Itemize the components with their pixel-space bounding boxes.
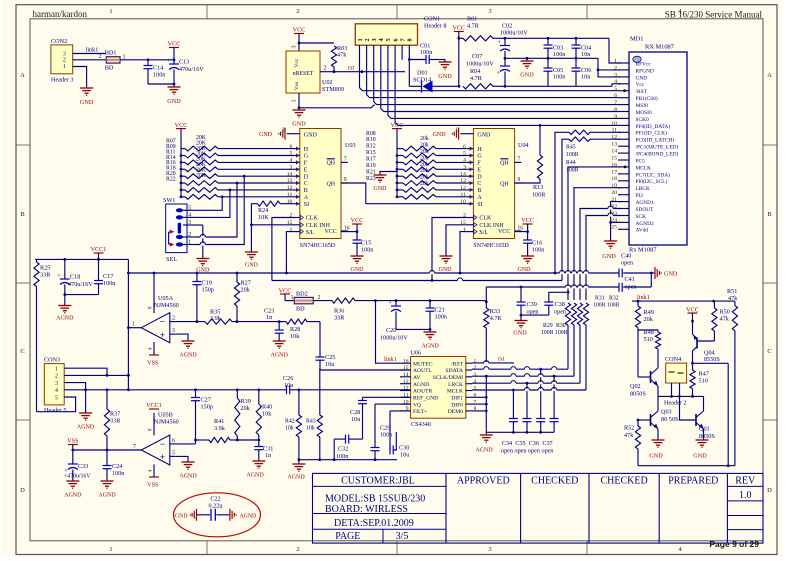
svg-text:B: B <box>767 211 772 218</box>
svg-text:B: B <box>477 188 481 194</box>
ferrite bead BD1 <box>105 50 126 72</box>
svg-text:AGND2: AGND2 <box>636 221 655 227</box>
svg-text:SN74HC165D: SN74HC165D <box>300 243 336 249</box>
svg-text:1000u/10V: 1000u/10V <box>380 335 408 342</box>
svg-text:R48: R48 <box>644 329 654 336</box>
svg-text:AGND: AGND <box>77 425 95 431</box>
svg-text:QH: QH <box>500 181 509 187</box>
svg-text:GND: GND <box>477 133 491 139</box>
svg-text:3: 3 <box>292 46 298 49</box>
svg-text:CLK: CLK <box>306 216 319 222</box>
svg-text:rst: rst <box>348 65 354 72</box>
svg-text:CON4: CON4 <box>665 356 681 363</box>
svg-text:Page 9 of 29: Page 9 of 29 <box>709 539 759 549</box>
svg-text:4: 4 <box>378 38 385 41</box>
svg-text:A: A <box>20 72 25 79</box>
svg-text:R15: R15 <box>366 150 376 156</box>
svg-text:R23: R23 <box>366 176 376 182</box>
svg-text:PAGE: PAGE <box>335 531 360 542</box>
svg-text:G: G <box>304 154 309 160</box>
svg-text:GND: GND <box>259 132 273 138</box>
svg-text:Rx M1087: Rx M1087 <box>629 247 657 254</box>
svg-text:47k: 47k <box>337 52 347 59</box>
svg-text:13: 13 <box>611 142 617 148</box>
wire CON1 bus to MD1 pins 5-10 <box>367 45 618 125</box>
svg-text:C35: C35 <box>515 440 525 447</box>
analog ground AGND (bottom row) <box>287 460 305 481</box>
wire AOUTR row right <box>298 388 411 391</box>
svg-text:AGND: AGND <box>240 513 257 519</box>
ground GND (rail) <box>520 58 534 78</box>
svg-text:R37: R37 <box>110 411 120 418</box>
wire BD1 to VCC node <box>120 58 175 61</box>
svg-text:C02: C02 <box>502 23 512 30</box>
svg-text:open: open <box>621 260 633 267</box>
svg-text:GND: GND <box>374 186 388 192</box>
svg-text:harman/kardon: harman/kardon <box>33 9 88 19</box>
svg-text:GND: GND <box>304 133 318 139</box>
transistor Q02 8050S <box>630 368 658 398</box>
svg-text:9: 9 <box>614 114 617 120</box>
svg-text:8: 8 <box>614 107 617 113</box>
svg-text:C40: C40 <box>621 253 631 260</box>
svg-text:4.7R: 4.7R <box>467 23 480 30</box>
svg-text:11: 11 <box>287 192 293 198</box>
svg-text:C41: C41 <box>625 276 635 283</box>
capacitor C31 1n <box>254 440 273 461</box>
analog ground AGND (C34-C37) <box>475 432 493 453</box>
capacitor C30 10u <box>390 411 409 459</box>
capacitor C29 100n <box>371 404 393 461</box>
svg-text:C33: C33 <box>78 463 88 470</box>
svg-text:2: 2 <box>364 38 371 41</box>
resistor R03 47k <box>299 43 347 72</box>
svg-text:open: open <box>554 308 566 315</box>
svg-text:AGND: AGND <box>56 316 74 322</box>
svg-text:5: 5 <box>614 86 617 92</box>
svg-text:6: 6 <box>463 144 466 150</box>
svg-text:13: 13 <box>460 178 466 184</box>
svg-text:Q03: Q03 <box>661 409 672 416</box>
svg-text:CLK INH: CLK INH <box>306 223 331 229</box>
svg-text:R36: R36 <box>334 308 344 315</box>
svg-text:10u: 10u <box>325 361 334 368</box>
svg-text:R43: R43 <box>306 419 316 425</box>
ground GND sideways (U04 pin8) <box>433 128 459 140</box>
capacitor C33 470u/16V <box>64 450 91 481</box>
svg-text:Vcc: Vcc <box>636 82 645 88</box>
svg-text:RFGND: RFGND <box>636 68 654 74</box>
ground GND (C13/C14) <box>167 84 181 105</box>
resistor R29 100R <box>565 303 570 369</box>
svg-text:C26: C26 <box>283 375 293 382</box>
svg-text:GND: GND <box>518 267 532 273</box>
svg-text:14: 14 <box>611 149 617 155</box>
labels R07-R22 values <box>166 135 207 183</box>
svg-text:C24: C24 <box>112 463 122 470</box>
resistor R44 100R (ID_CLK) <box>562 137 621 281</box>
resistor R31 100R <box>577 303 582 383</box>
svg-text:100n: 100n <box>112 470 124 477</box>
resistor R48 510 <box>638 328 661 368</box>
svg-text:2: 2 <box>172 316 175 322</box>
svg-text:C: C <box>767 348 771 355</box>
wire hop crossovers <box>200 206 613 391</box>
svg-text:12: 12 <box>287 185 293 191</box>
svg-text:PI0(I2C_SCL): PI0(I2C_SCL) <box>636 178 668 185</box>
svg-text:8: 8 <box>407 38 414 41</box>
svg-text:1: 1 <box>614 58 617 64</box>
svg-text:FILT+: FILT+ <box>413 409 427 415</box>
capacitor C41 open <box>619 276 637 292</box>
svg-text:U06: U06 <box>411 349 422 356</box>
power VCC1 <box>91 246 107 259</box>
svg-text:CON1: CON1 <box>424 16 440 23</box>
svg-text:2: 2 <box>324 66 327 72</box>
resistor R42 10k <box>285 390 302 461</box>
capacitor C14 <box>144 60 166 84</box>
svg-text:2: 2 <box>99 54 102 60</box>
wire U04 SI row <box>366 203 467 205</box>
wire CON2 pin1 to GND <box>73 67 87 89</box>
svg-text:VQ: VQ <box>413 402 421 408</box>
capacitor C28 10u <box>350 397 367 439</box>
svg-text:DETA:SEP.01.2009: DETA:SEP.01.2009 <box>334 518 414 529</box>
svg-text:20k: 20k <box>420 155 429 161</box>
svg-text:R42: R42 <box>285 419 295 425</box>
svg-text:R12: R12 <box>366 144 376 150</box>
svg-text:3: 3 <box>172 328 175 334</box>
svg-text:33R: 33R <box>40 272 51 279</box>
svg-text:14: 14 <box>460 171 466 177</box>
svg-text:1.0: 1.0 <box>739 490 752 501</box>
resistor R50 47k <box>712 301 730 331</box>
svg-text:C34: C34 <box>502 440 512 447</box>
svg-text:25: 25 <box>611 225 617 231</box>
svg-text:H: H <box>304 147 309 153</box>
svg-text:SN74HC165D: SN74HC165D <box>473 243 509 249</box>
capacitor C38 open <box>544 291 569 315</box>
power VCC (C15) <box>341 217 363 233</box>
wire U06 /RST net rst <box>472 356 514 363</box>
svg-text:2: 2 <box>474 365 477 371</box>
capacitor C36 open <box>536 369 545 433</box>
wire bus ID_LATCH row <box>272 279 562 282</box>
svg-text:+: + <box>160 330 165 340</box>
wire VQ row <box>375 403 411 405</box>
svg-text:3: 3 <box>371 38 378 41</box>
ferrite bead BD2 <box>294 290 320 312</box>
svg-text:100R: 100R <box>593 303 606 309</box>
wire SDATA row <box>472 368 568 371</box>
svg-text:150p: 150p <box>201 404 213 411</box>
connector CON3 (Header 5) <box>44 356 67 414</box>
wire LRCK column <box>574 188 621 300</box>
wire U05A output rail <box>127 259 130 389</box>
svg-text:AGND: AGND <box>271 353 289 359</box>
svg-text:QH: QH <box>326 181 335 187</box>
svg-text:AGND: AGND <box>475 448 493 454</box>
svg-text:BD: BD <box>296 305 305 312</box>
resistor network R08-R23 20k <box>396 146 467 199</box>
svg-text:5: 5 <box>463 151 466 157</box>
power VCC (Q04) <box>686 307 699 335</box>
svg-text:10k: 10k <box>290 333 300 340</box>
svg-text:10u: 10u <box>284 382 293 389</box>
resistor R43 10k <box>306 368 322 461</box>
svg-text:D01: D01 <box>417 70 428 77</box>
capacitor C07 1000u/10V <box>466 53 510 86</box>
svg-text:rst: rst <box>498 356 504 363</box>
svg-text:nRESET: nRESET <box>293 71 314 77</box>
resistor R04 4.7R <box>463 68 506 89</box>
svg-text:Header 8: Header 8 <box>424 23 447 30</box>
svg-text:10k: 10k <box>262 411 272 418</box>
svg-text:AGND: AGND <box>421 344 439 350</box>
svg-text:CON2: CON2 <box>51 38 67 45</box>
svg-text:4: 4 <box>614 79 617 85</box>
svg-text:3: 3 <box>614 72 617 78</box>
svg-text:20k: 20k <box>644 316 654 323</box>
svg-text:4.7K: 4.7K <box>490 315 503 322</box>
ground GND (MD1 AGND) <box>602 241 617 260</box>
svg-text:R52: R52 <box>624 425 634 432</box>
svg-text:U03: U03 <box>345 142 356 149</box>
svg-text:R08: R08 <box>366 131 376 137</box>
svg-text:Header 5: Header 5 <box>44 407 67 414</box>
svg-text:Vss: Vss <box>294 82 300 90</box>
power VSS (U05A) <box>147 355 159 367</box>
svg-text:100R: 100R <box>607 303 620 309</box>
ground GND (SW1) <box>196 259 210 274</box>
wire MCLK row <box>472 389 586 392</box>
wire U04 CLK INH to GND <box>446 225 467 256</box>
svg-text:14: 14 <box>287 171 293 177</box>
svg-text:3: 3 <box>463 165 466 171</box>
svg-text:GND: GND <box>520 72 534 79</box>
svg-text:/RST: /RST <box>636 89 648 95</box>
wire analog bottom row <box>299 459 397 461</box>
analog ground AGND (C33) <box>64 481 82 499</box>
svg-text:AGND: AGND <box>98 493 116 499</box>
capacitor C02 1000u/10V <box>498 23 529 59</box>
labels R08-R23 values <box>366 131 429 187</box>
svg-text:RFVcc: RFVcc <box>636 61 652 67</box>
svg-text:VCC: VCC <box>452 25 465 32</box>
analog ground AGND (C20/C21) <box>396 328 439 350</box>
svg-text:link1: link1 <box>86 47 99 54</box>
wire SDOUT column <box>580 209 621 301</box>
svg-text:Q01: Q01 <box>699 426 710 433</box>
title: harman/kardon <box>33 9 88 19</box>
svg-text:C38: C38 <box>555 301 565 308</box>
svg-text:1: 1 <box>55 367 58 373</box>
svg-text:GND: GND <box>433 132 447 138</box>
svg-text:R28: R28 <box>290 326 300 333</box>
svg-text:R49: R49 <box>644 309 654 316</box>
wire CON1 pin1 drop <box>360 45 619 90</box>
ground GND (C15) <box>351 256 365 273</box>
ground GND (R24/CLKINH) <box>245 204 259 269</box>
analog ground AGND (U05B pin5) <box>176 456 197 479</box>
wire CON2 pin3 net link1 <box>73 47 106 54</box>
capacitor C20 1000u/10V <box>380 301 408 342</box>
svg-text:AGND: AGND <box>246 473 264 479</box>
svg-text:7: 7 <box>400 38 407 41</box>
svg-text:16: 16 <box>517 225 523 231</box>
op-amp U05A NJM4560 <box>128 273 178 355</box>
svg-text:1000u/10V: 1000u/10V <box>466 61 494 68</box>
labels R29/R30 <box>541 323 568 336</box>
wire VCC1 rail <box>35 258 128 261</box>
svg-text:open: open <box>501 447 513 454</box>
capacitor C25 10u <box>316 322 336 370</box>
resistor R45 100R (ID_DATA) <box>555 130 621 273</box>
title: SB 16/230 Service Manual <box>665 10 763 20</box>
diode D01 SCD14 <box>413 70 433 93</box>
svg-text:7: 7 <box>614 100 617 106</box>
svg-text:NJM4560: NJM4560 <box>154 302 179 309</box>
svg-text:BD1: BD1 <box>105 50 117 57</box>
svg-text:47k: 47k <box>624 432 634 439</box>
svg-text:open: open <box>625 283 637 290</box>
analog ground AGND (CON3) <box>77 413 95 431</box>
svg-text:PREPARED: PREPARED <box>668 475 718 486</box>
wire AGND1/AGND2 to GND <box>609 202 621 241</box>
capacitor C13 470u/16V <box>167 59 205 85</box>
svg-text:R10: R10 <box>366 137 376 143</box>
svg-text:100R: 100R <box>555 330 568 336</box>
svg-text:3/5: 3/5 <box>396 531 409 542</box>
wire bus row3 (VA open caps) <box>486 273 651 288</box>
svg-text:GND: GND <box>513 330 527 337</box>
svg-text:A: A <box>767 72 772 79</box>
labels C34-C37 <box>501 440 554 454</box>
ground GND (U04 CLKINH) <box>439 256 453 273</box>
svg-text:C18: C18 <box>70 274 80 281</box>
connector CON4 (Header 2) <box>664 356 687 407</box>
svg-text:A: A <box>477 195 482 201</box>
svg-text:D: D <box>767 487 772 494</box>
svg-text:5: 5 <box>172 450 175 456</box>
svg-text:20k: 20k <box>241 287 251 294</box>
svg-text:Header 2: Header 2 <box>664 400 687 407</box>
svg-text:AGND: AGND <box>287 475 305 481</box>
svg-text:C27: C27 <box>201 397 211 404</box>
svg-text:R04: R04 <box>470 68 480 75</box>
svg-text:REV: REV <box>735 475 756 486</box>
svg-text:BD2: BD2 <box>296 290 308 297</box>
svg-text:open: open <box>514 447 526 454</box>
svg-text:100R: 100R <box>541 330 554 336</box>
title block grid <box>313 473 764 543</box>
svg-text:MD1: MD1 <box>630 36 644 43</box>
svg-text:47k: 47k <box>720 316 730 323</box>
power VCC (U04 ladder) <box>391 122 404 197</box>
svg-text:5: 5 <box>474 386 477 392</box>
wire C32 drop <box>333 439 336 461</box>
ground GND (U04 ladder) <box>374 172 398 193</box>
svg-text:GND: GND <box>175 513 188 519</box>
svg-text:510: 510 <box>699 378 708 385</box>
svg-text:B: B <box>20 211 25 218</box>
resistor R30 100R <box>571 303 576 376</box>
capacitor C19 150p <box>192 273 213 323</box>
svg-text:CLK INH: CLK INH <box>479 223 504 229</box>
supervisor U02 STM809 <box>286 46 344 103</box>
resistor R35 3.9k <box>176 309 237 325</box>
analog ground AGND (C23) <box>271 341 289 359</box>
svg-text:1: 1 <box>109 8 112 15</box>
svg-text:33R: 33R <box>334 315 345 322</box>
svg-text:VSS: VSS <box>147 482 159 489</box>
ground GND (C16) <box>518 256 535 273</box>
capacitor C35 open <box>523 383 532 433</box>
svg-text:AGND: AGND <box>413 382 429 388</box>
svg-text:6: 6 <box>290 144 293 150</box>
svg-text:CUSTOMER:JBL: CUSTOMER:JBL <box>341 475 415 486</box>
resistor R01 4.7R <box>457 16 505 41</box>
svg-text:PF0(ID_DATA): PF0(ID_DATA) <box>636 123 671 130</box>
svg-text:20k: 20k <box>420 168 429 174</box>
svg-text:PC7(I2C_SDA): PC7(I2C_SDA) <box>636 171 671 178</box>
svg-text:S/L: S/L <box>306 230 315 236</box>
svg-text:link1: link1 <box>384 356 397 363</box>
svg-text:150p: 150p <box>202 287 214 294</box>
wire mid GND row <box>505 57 598 60</box>
svg-text:CS4340: CS4340 <box>411 421 431 428</box>
svg-text:3.9k: 3.9k <box>214 425 226 432</box>
svg-text:R45: R45 <box>566 145 576 151</box>
svg-text:100n: 100n <box>103 280 115 287</box>
svg-text:AOUTR: AOUTR <box>413 389 433 395</box>
svg-text:3: 3 <box>55 381 58 387</box>
capacitor C34 open <box>509 390 518 434</box>
svg-text:3: 3 <box>488 546 491 553</box>
resistor R28 10k <box>279 319 320 340</box>
capacitor C05 100n <box>544 58 566 86</box>
wire CON3 pin4 long row (AOUTR) <box>64 388 286 391</box>
svg-text:R41: R41 <box>214 418 224 425</box>
svg-text:GND: GND <box>351 267 365 273</box>
ground GND (C38/C39) <box>513 314 549 337</box>
analog ground AGND (U05A pin3) <box>176 334 197 358</box>
analog ground AGND (C31) <box>246 461 265 479</box>
svg-text:C15: C15 <box>361 240 371 247</box>
svg-text:SCK0: SCK0 <box>636 117 649 123</box>
svg-text:/PC4(BOND_LED): /PC4(BOND_LED) <box>636 151 679 158</box>
svg-text:+470u/16V: +470u/16V <box>64 474 91 480</box>
svg-text:SEL: SEL <box>166 256 177 263</box>
svg-text:C21: C21 <box>435 307 445 314</box>
svg-text:H: H <box>477 147 482 153</box>
capacitor C18 470u/16V <box>57 259 93 294</box>
resistor R39 20k <box>235 390 251 442</box>
wire LRCK row <box>472 382 580 385</box>
wire VCC row (D01/R04) <box>409 85 460 88</box>
resistor network R07-R22 20K <box>180 146 293 199</box>
svg-text:VCC: VCC <box>498 229 510 235</box>
capacitor C23 1n <box>237 308 284 342</box>
svg-text:1: 1 <box>474 358 477 364</box>
svg-text:470u/16V: 470u/16V <box>68 281 93 288</box>
wire Q03 base / R52 <box>637 419 651 422</box>
wire GND row to MD1 pins2-3 <box>597 58 621 77</box>
svg-text:100n: 100n <box>336 453 348 460</box>
wire U04 CLK <box>432 218 467 281</box>
svg-text:7: 7 <box>517 157 520 163</box>
svg-text:R31: R31 <box>595 296 605 302</box>
